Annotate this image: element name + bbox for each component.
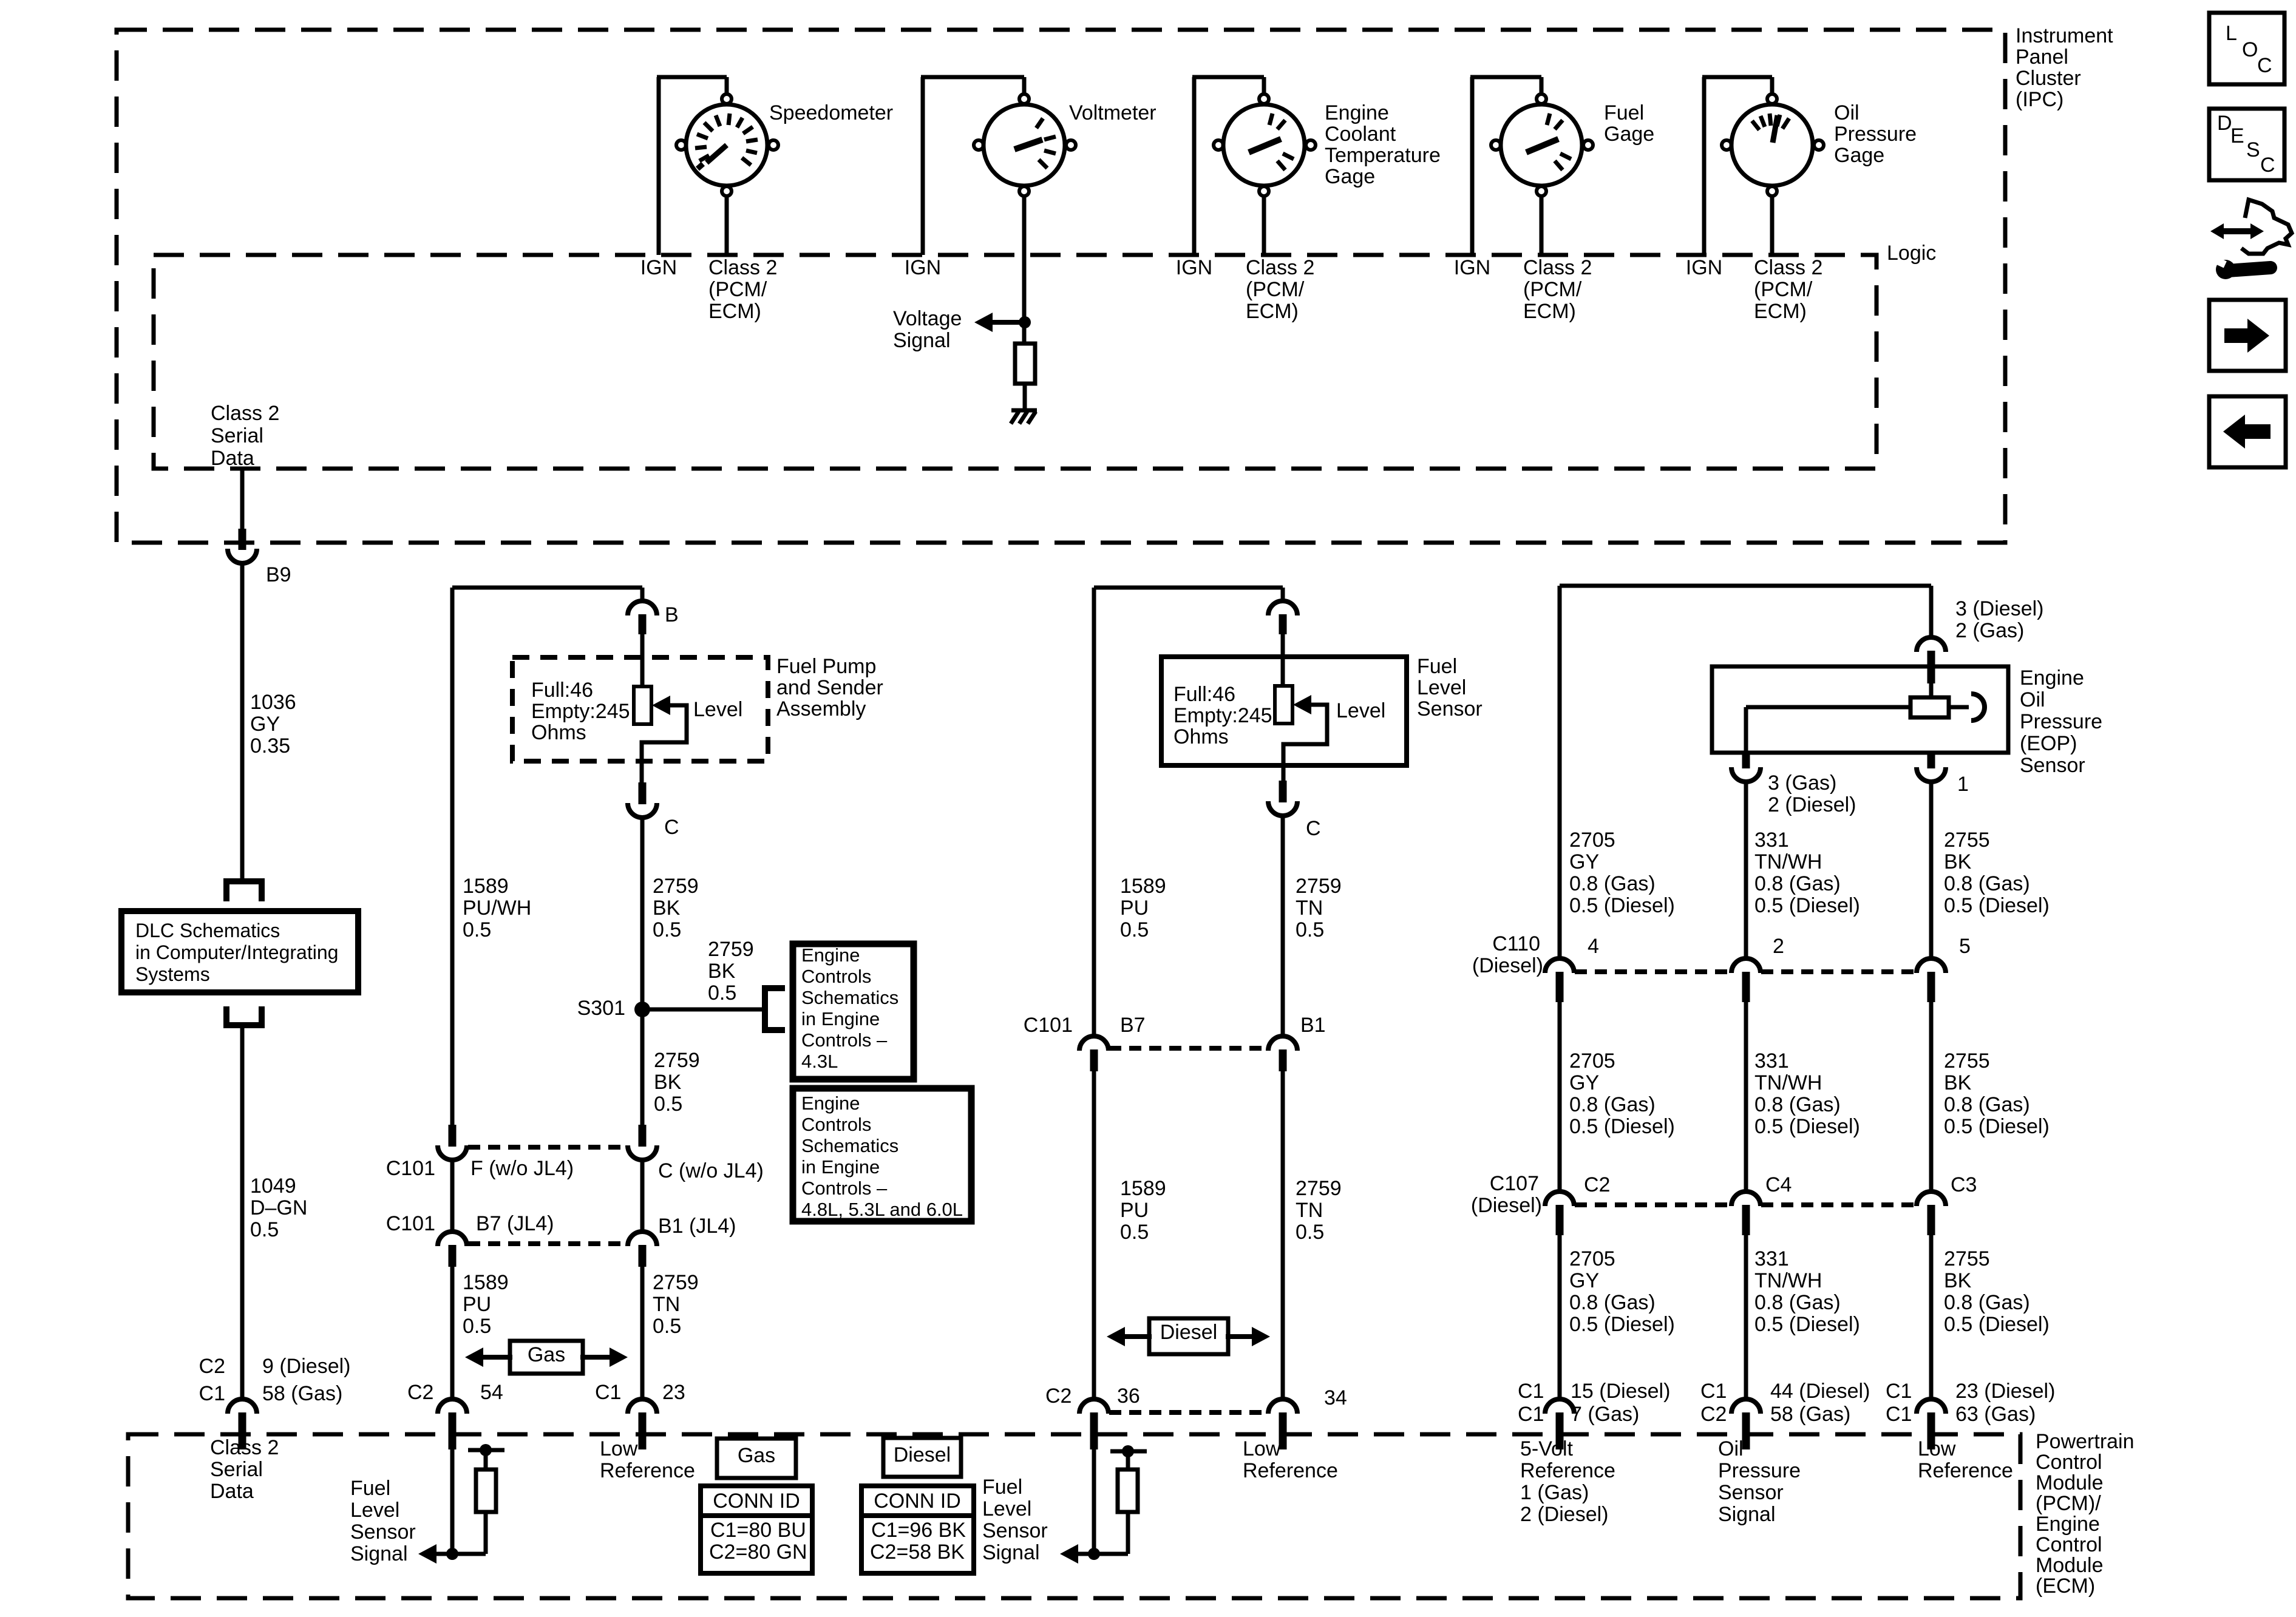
svg-text:Oil: Oil: [1718, 1437, 1744, 1460]
svg-text:Engine: Engine: [1325, 101, 1389, 124]
svg-text:Assembly: Assembly: [776, 697, 866, 720]
svg-text:BK: BK: [1944, 850, 1972, 873]
svg-text:0.5 (Diesel): 0.5 (Diesel): [1569, 894, 1675, 917]
svg-text:36: 36: [1117, 1385, 1140, 1408]
svg-text:Control: Control: [2036, 1451, 2102, 1474]
svg-text:Class 2: Class 2: [210, 1436, 279, 1459]
svg-text:S301: S301: [577, 997, 625, 1020]
svg-text:Low: Low: [600, 1437, 638, 1460]
svg-text:C3: C3: [1951, 1173, 1977, 1196]
svg-text:C2: C2: [407, 1381, 433, 1404]
svg-text:C2: C2: [1045, 1385, 1072, 1408]
svg-text:0.8 (Gas): 0.8 (Gas): [1944, 1291, 2030, 1314]
svg-text:0.8 (Gas): 0.8 (Gas): [1569, 872, 1656, 895]
svg-text:Data: Data: [211, 447, 254, 470]
svg-text:0.8 (Gas): 0.8 (Gas): [1754, 872, 1841, 895]
svg-text:34: 34: [1324, 1386, 1347, 1409]
svg-text:5-Volt: 5-Volt: [1520, 1437, 1573, 1460]
svg-text:2 (Gas): 2 (Gas): [1955, 619, 2024, 642]
svg-text:2759: 2759: [708, 938, 754, 961]
svg-text:Level: Level: [1336, 699, 1385, 722]
svg-text:C2=58 BK: C2=58 BK: [870, 1541, 965, 1564]
svg-text:0.5: 0.5: [653, 1315, 681, 1338]
svg-text:58 (Gas): 58 (Gas): [262, 1382, 342, 1405]
svg-text:D: D: [2217, 112, 2232, 135]
svg-text:IGN: IGN: [905, 256, 941, 279]
svg-text:BK: BK: [708, 960, 736, 983]
svg-text:0.5 (Diesel): 0.5 (Diesel): [1754, 894, 1860, 917]
svg-text:IGN: IGN: [1176, 256, 1212, 279]
svg-text:C101: C101: [386, 1157, 435, 1180]
svg-text:Sensor: Sensor: [1718, 1481, 1784, 1504]
svg-text:and Sender: and Sender: [776, 676, 883, 699]
svg-text:1049: 1049: [250, 1175, 296, 1198]
svg-text:0.8 (Gas): 0.8 (Gas): [1569, 1291, 1656, 1314]
svg-text:C1: C1: [199, 1382, 225, 1405]
svg-text:Pressure: Pressure: [2020, 710, 2102, 733]
svg-text:IGN: IGN: [1686, 256, 1722, 279]
svg-text:Data: Data: [210, 1480, 254, 1503]
svg-text:Gage: Gage: [1604, 123, 1654, 146]
svg-text:2: 2: [1773, 935, 1784, 958]
svg-text:C2: C2: [1700, 1403, 1727, 1426]
svg-text:in Engine: in Engine: [801, 1008, 880, 1029]
svg-text:Class 2: Class 2: [708, 256, 777, 279]
svg-text:TN/WH: TN/WH: [1754, 1071, 1822, 1094]
svg-text:Low: Low: [1243, 1437, 1281, 1460]
svg-text:GY: GY: [1569, 1071, 1599, 1094]
svg-text:Instrument: Instrument: [2016, 24, 2113, 47]
svg-text:0.8 (Gas): 0.8 (Gas): [1754, 1291, 1841, 1314]
svg-text:C1: C1: [1518, 1380, 1544, 1403]
svg-text:Signal: Signal: [350, 1542, 408, 1565]
svg-text:Diesel: Diesel: [894, 1443, 951, 1466]
svg-text:0.8 (Gas): 0.8 (Gas): [1944, 872, 2030, 895]
svg-text:5: 5: [1959, 935, 1971, 958]
svg-text:0.5 (Diesel): 0.5 (Diesel): [1944, 1115, 2050, 1138]
svg-text:C1: C1: [1518, 1403, 1544, 1426]
svg-text:(ECM): (ECM): [2036, 1575, 2095, 1598]
svg-text:0.5 (Diesel): 0.5 (Diesel): [1944, 894, 2050, 917]
svg-text:2759: 2759: [1296, 875, 1342, 898]
svg-text:C101: C101: [1024, 1014, 1073, 1037]
svg-text:Engine: Engine: [2020, 666, 2084, 690]
svg-text:Class 2: Class 2: [1246, 256, 1314, 279]
svg-text:GY: GY: [250, 713, 280, 736]
svg-text:C1: C1: [1886, 1380, 1912, 1403]
svg-text:PU: PU: [1120, 897, 1149, 920]
svg-text:Sensor: Sensor: [350, 1520, 416, 1544]
svg-text:2759: 2759: [653, 875, 699, 898]
svg-text:Low: Low: [1918, 1437, 1956, 1460]
svg-text:(PCM/: (PCM/: [1246, 278, 1305, 301]
svg-text:0.5: 0.5: [1296, 1221, 1324, 1244]
svg-text:GY: GY: [1569, 850, 1599, 873]
svg-text:Engine: Engine: [801, 1093, 860, 1114]
svg-text:0.5 (Diesel): 0.5 (Diesel): [1569, 1115, 1675, 1138]
svg-text:1589: 1589: [1120, 875, 1166, 898]
svg-text:B1 (JL4): B1 (JL4): [658, 1215, 736, 1238]
svg-text:Coolant: Coolant: [1325, 123, 1396, 146]
svg-text:Signal: Signal: [893, 329, 951, 352]
svg-text:2759: 2759: [653, 1271, 699, 1294]
svg-text:Oil: Oil: [2020, 688, 2045, 711]
svg-text:ECM): ECM): [1523, 300, 1576, 323]
svg-text:Pressure: Pressure: [1834, 123, 1917, 146]
svg-text:Diesel: Diesel: [1160, 1321, 1217, 1344]
svg-text:Empty:245: Empty:245: [531, 700, 630, 723]
svg-text:O: O: [2242, 38, 2258, 61]
svg-text:Voltage: Voltage: [893, 307, 962, 330]
svg-text:C: C: [1306, 817, 1321, 840]
svg-text:0.5 (Diesel): 0.5 (Diesel): [1944, 1313, 2050, 1336]
svg-text:Fuel: Fuel: [1417, 655, 1457, 678]
svg-text:0.5 (Diesel): 0.5 (Diesel): [1754, 1313, 1860, 1336]
svg-text:Engine: Engine: [801, 944, 860, 966]
svg-text:(Diesel): (Diesel): [1472, 954, 1543, 977]
svg-text:1: 1: [1957, 773, 1969, 796]
svg-text:2759: 2759: [1296, 1177, 1342, 1200]
svg-text:0.5: 0.5: [653, 918, 681, 941]
svg-text:ECM): ECM): [1246, 300, 1299, 323]
svg-text:Gage: Gage: [1325, 165, 1375, 188]
svg-text:PU/WH: PU/WH: [463, 897, 531, 920]
svg-text:0.5: 0.5: [1120, 918, 1149, 941]
svg-text:Reference: Reference: [600, 1459, 695, 1482]
svg-text:C1: C1: [595, 1381, 621, 1404]
svg-text:CONN ID: CONN ID: [874, 1490, 961, 1513]
svg-text:1589: 1589: [463, 1271, 509, 1294]
svg-text:Fuel: Fuel: [982, 1476, 1022, 1499]
svg-text:Schematics: Schematics: [801, 1135, 898, 1156]
svg-text:Serial: Serial: [211, 424, 263, 447]
svg-text:Class 2: Class 2: [1523, 256, 1592, 279]
svg-text:Level: Level: [350, 1499, 399, 1522]
svg-text:C4: C4: [1765, 1173, 1792, 1196]
svg-text:2 (Diesel): 2 (Diesel): [1520, 1503, 1608, 1526]
svg-text:C1: C1: [1700, 1380, 1727, 1403]
svg-text:Sensor: Sensor: [982, 1519, 1048, 1542]
svg-text:0.5: 0.5: [1120, 1221, 1149, 1244]
svg-text:0.8 (Gas): 0.8 (Gas): [1569, 1093, 1656, 1116]
svg-text:(PCM/: (PCM/: [708, 278, 767, 301]
svg-text:Fuel Pump: Fuel Pump: [776, 655, 876, 678]
svg-text:Pressure: Pressure: [1718, 1459, 1801, 1482]
svg-text:Signal: Signal: [1718, 1503, 1776, 1526]
svg-text:Empty:245: Empty:245: [1173, 704, 1272, 727]
svg-text:23: 23: [662, 1381, 685, 1404]
svg-text:DLC Schematics: DLC Schematics: [135, 920, 280, 941]
svg-text:15 (Diesel): 15 (Diesel): [1571, 1380, 1670, 1403]
svg-text:Full:46: Full:46: [531, 679, 593, 702]
svg-text:BK: BK: [1944, 1071, 1972, 1094]
svg-text:BK: BK: [653, 897, 681, 920]
svg-text:TN/WH: TN/WH: [1754, 1269, 1822, 1292]
svg-text:Control: Control: [2036, 1533, 2102, 1556]
svg-text:Gas: Gas: [528, 1343, 565, 1366]
svg-text:Ohms: Ohms: [531, 721, 586, 744]
svg-text:ECM): ECM): [1754, 300, 1807, 323]
svg-text:0.5: 0.5: [463, 918, 491, 941]
svg-text:C1=80 BU: C1=80 BU: [710, 1519, 806, 1542]
svg-text:PU: PU: [463, 1293, 491, 1316]
svg-text:Signal: Signal: [982, 1541, 1040, 1564]
svg-text:C2: C2: [199, 1355, 225, 1378]
svg-text:Controls: Controls: [801, 966, 871, 987]
svg-text:S: S: [2246, 138, 2260, 161]
svg-text:4.3L: 4.3L: [801, 1051, 838, 1072]
svg-text:Oil: Oil: [1834, 101, 1860, 124]
svg-text:2755: 2755: [1944, 829, 1990, 852]
svg-text:Gas: Gas: [738, 1444, 775, 1467]
svg-text:2705: 2705: [1569, 1247, 1615, 1270]
svg-text:TN: TN: [1296, 897, 1323, 920]
svg-text:(Diesel): (Diesel): [1471, 1194, 1542, 1217]
svg-text:CONN ID: CONN ID: [713, 1490, 800, 1513]
svg-text:54: 54: [480, 1381, 503, 1404]
svg-text:TN/WH: TN/WH: [1754, 850, 1822, 873]
svg-text:ECM): ECM): [708, 300, 761, 323]
svg-text:Schematics: Schematics: [801, 987, 898, 1008]
svg-text:Module: Module: [2036, 1554, 2104, 1577]
svg-text:B9: B9: [266, 563, 291, 586]
svg-text:0.5: 0.5: [1296, 918, 1324, 941]
svg-text:Fuel: Fuel: [350, 1477, 390, 1500]
svg-text:Reference: Reference: [1918, 1459, 2013, 1482]
svg-text:1 (Gas): 1 (Gas): [1520, 1481, 1589, 1504]
svg-text:3 (Gas): 3 (Gas): [1768, 771, 1836, 795]
svg-text:0.5 (Diesel): 0.5 (Diesel): [1754, 1115, 1860, 1138]
svg-text:331: 331: [1754, 829, 1789, 852]
svg-text:(PCM)/: (PCM)/: [2036, 1492, 2101, 1515]
svg-text:Fuel: Fuel: [1604, 101, 1644, 124]
svg-text:2755: 2755: [1944, 1247, 1990, 1270]
svg-text:C1=96 BK: C1=96 BK: [871, 1519, 966, 1542]
svg-text:Ohms: Ohms: [1173, 725, 1229, 748]
svg-text:Class 2: Class 2: [211, 402, 279, 425]
svg-text:44 (Diesel): 44 (Diesel): [1770, 1380, 1870, 1403]
svg-text:Class 2: Class 2: [1754, 256, 1822, 279]
svg-text:BK: BK: [654, 1071, 682, 1094]
svg-text:Voltmeter: Voltmeter: [1069, 101, 1156, 124]
svg-text:1589: 1589: [1120, 1177, 1166, 1200]
svg-text:IGN: IGN: [1454, 256, 1490, 279]
svg-text:1589: 1589: [463, 875, 509, 898]
svg-text:4: 4: [1588, 935, 1599, 958]
svg-text:Reference: Reference: [1243, 1459, 1338, 1482]
svg-text:58 (Gas): 58 (Gas): [1770, 1403, 1850, 1426]
svg-text:B: B: [665, 603, 679, 626]
svg-text:IGN: IGN: [640, 256, 677, 279]
svg-text:331: 331: [1754, 1049, 1789, 1073]
svg-text:L: L: [2226, 22, 2237, 45]
svg-text:Speedometer: Speedometer: [769, 101, 893, 124]
svg-text:C: C: [664, 816, 679, 839]
svg-text:23 (Diesel): 23 (Diesel): [1955, 1380, 2055, 1403]
svg-text:C110: C110: [1492, 932, 1540, 955]
svg-text:F (w/o JL4): F (w/o JL4): [470, 1157, 574, 1180]
svg-text:C2=80 GN: C2=80 GN: [709, 1541, 807, 1564]
svg-text:Level: Level: [1417, 676, 1466, 699]
svg-text:1036: 1036: [250, 691, 296, 714]
svg-text:in Engine: in Engine: [801, 1156, 880, 1178]
svg-text:B1: B1: [1300, 1014, 1326, 1037]
svg-text:0.8 (Gas): 0.8 (Gas): [1944, 1093, 2030, 1116]
svg-text:Sensor: Sensor: [1417, 697, 1483, 720]
svg-text:3 (Diesel): 3 (Diesel): [1955, 597, 2043, 620]
svg-text:C: C: [2257, 54, 2272, 77]
svg-text:2705: 2705: [1569, 829, 1615, 852]
svg-text:TN: TN: [653, 1293, 680, 1316]
svg-text:2755: 2755: [1944, 1049, 1990, 1073]
svg-text:Cluster: Cluster: [2016, 67, 2081, 90]
svg-text:63 (Gas): 63 (Gas): [1955, 1403, 2036, 1426]
svg-text:C2: C2: [1584, 1173, 1610, 1196]
svg-text:0.5: 0.5: [708, 981, 736, 1005]
svg-text:Logic: Logic: [1887, 242, 1936, 265]
svg-text:(EOP): (EOP): [2020, 732, 2077, 755]
svg-text:BK: BK: [1944, 1269, 1972, 1292]
svg-text:C107: C107: [1490, 1172, 1539, 1195]
svg-text:C: C: [2260, 154, 2275, 177]
svg-text:4.8L, 5.3L and 6.0L: 4.8L, 5.3L and 6.0L: [801, 1199, 963, 1220]
svg-text:Full:46: Full:46: [1173, 683, 1235, 706]
svg-text:Level: Level: [982, 1497, 1031, 1520]
svg-text:PU: PU: [1120, 1199, 1149, 1222]
svg-text:Controls: Controls: [801, 1114, 871, 1135]
svg-text:0.35: 0.35: [250, 734, 290, 758]
svg-text:7 (Gas): 7 (Gas): [1571, 1403, 1639, 1426]
svg-text:Powertrain: Powertrain: [2036, 1430, 2135, 1453]
svg-text:2759: 2759: [654, 1049, 700, 1072]
svg-text:in Computer/Integrating: in Computer/Integrating: [135, 941, 338, 963]
svg-text:D–GN: D–GN: [250, 1196, 307, 1219]
svg-text:Sensor: Sensor: [2020, 754, 2085, 777]
svg-text:TN: TN: [1296, 1199, 1323, 1222]
svg-text:B7: B7: [1120, 1014, 1146, 1037]
svg-text:0.5 (Diesel): 0.5 (Diesel): [1569, 1313, 1675, 1336]
svg-text:C1: C1: [1886, 1403, 1912, 1426]
svg-text:Serial: Serial: [210, 1458, 263, 1481]
svg-text:Engine: Engine: [2036, 1513, 2100, 1536]
svg-text:E: E: [2230, 124, 2244, 147]
svg-text:Panel: Panel: [2016, 46, 2068, 69]
svg-text:C (w/o JL4): C (w/o JL4): [658, 1159, 764, 1182]
svg-text:0.5: 0.5: [463, 1315, 491, 1338]
svg-text:GY: GY: [1569, 1269, 1599, 1292]
svg-text:Reference: Reference: [1520, 1459, 1615, 1482]
svg-text:0.5: 0.5: [654, 1093, 682, 1116]
svg-text:Level: Level: [693, 698, 742, 721]
svg-text:2705: 2705: [1569, 1049, 1615, 1073]
svg-text:0.5: 0.5: [250, 1218, 279, 1241]
svg-text:(PCM/: (PCM/: [1754, 278, 1813, 301]
svg-text:331: 331: [1754, 1247, 1789, 1270]
svg-text:(IPC): (IPC): [2016, 88, 2063, 111]
svg-text:Gage: Gage: [1834, 144, 1884, 167]
svg-text:Controls –: Controls –: [801, 1178, 888, 1199]
svg-text:C101: C101: [386, 1212, 435, 1235]
svg-text:B7 (JL4): B7 (JL4): [476, 1212, 554, 1235]
svg-text:Module: Module: [2036, 1471, 2104, 1494]
svg-text:9 (Diesel): 9 (Diesel): [262, 1355, 350, 1378]
svg-text:Controls –: Controls –: [801, 1029, 888, 1051]
svg-text:2 (Diesel): 2 (Diesel): [1768, 793, 1856, 816]
svg-text:Temperature: Temperature: [1325, 144, 1441, 167]
svg-text:(PCM/: (PCM/: [1523, 278, 1582, 301]
svg-text:0.8 (Gas): 0.8 (Gas): [1754, 1093, 1841, 1116]
svg-text:Systems: Systems: [135, 963, 210, 985]
